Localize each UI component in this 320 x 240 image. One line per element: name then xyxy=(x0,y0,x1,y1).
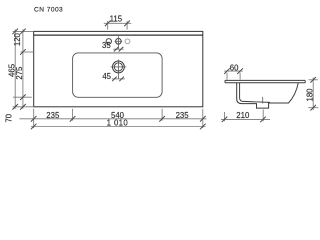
svg-text:120: 120 xyxy=(13,32,22,46)
svg-text:210: 210 xyxy=(236,111,250,120)
svg-text:60: 60 xyxy=(230,63,239,72)
svg-text:CN 7003: CN 7003 xyxy=(34,7,63,14)
svg-text:45: 45 xyxy=(102,72,111,81)
svg-text:35: 35 xyxy=(102,41,111,50)
svg-text:275: 275 xyxy=(15,66,24,80)
svg-text:180: 180 xyxy=(305,88,314,102)
svg-text:235: 235 xyxy=(176,111,190,120)
svg-text:235: 235 xyxy=(46,111,60,120)
svg-text:1 010: 1 010 xyxy=(107,119,129,128)
svg-text:115: 115 xyxy=(110,15,123,24)
svg-text:70: 70 xyxy=(5,113,14,122)
